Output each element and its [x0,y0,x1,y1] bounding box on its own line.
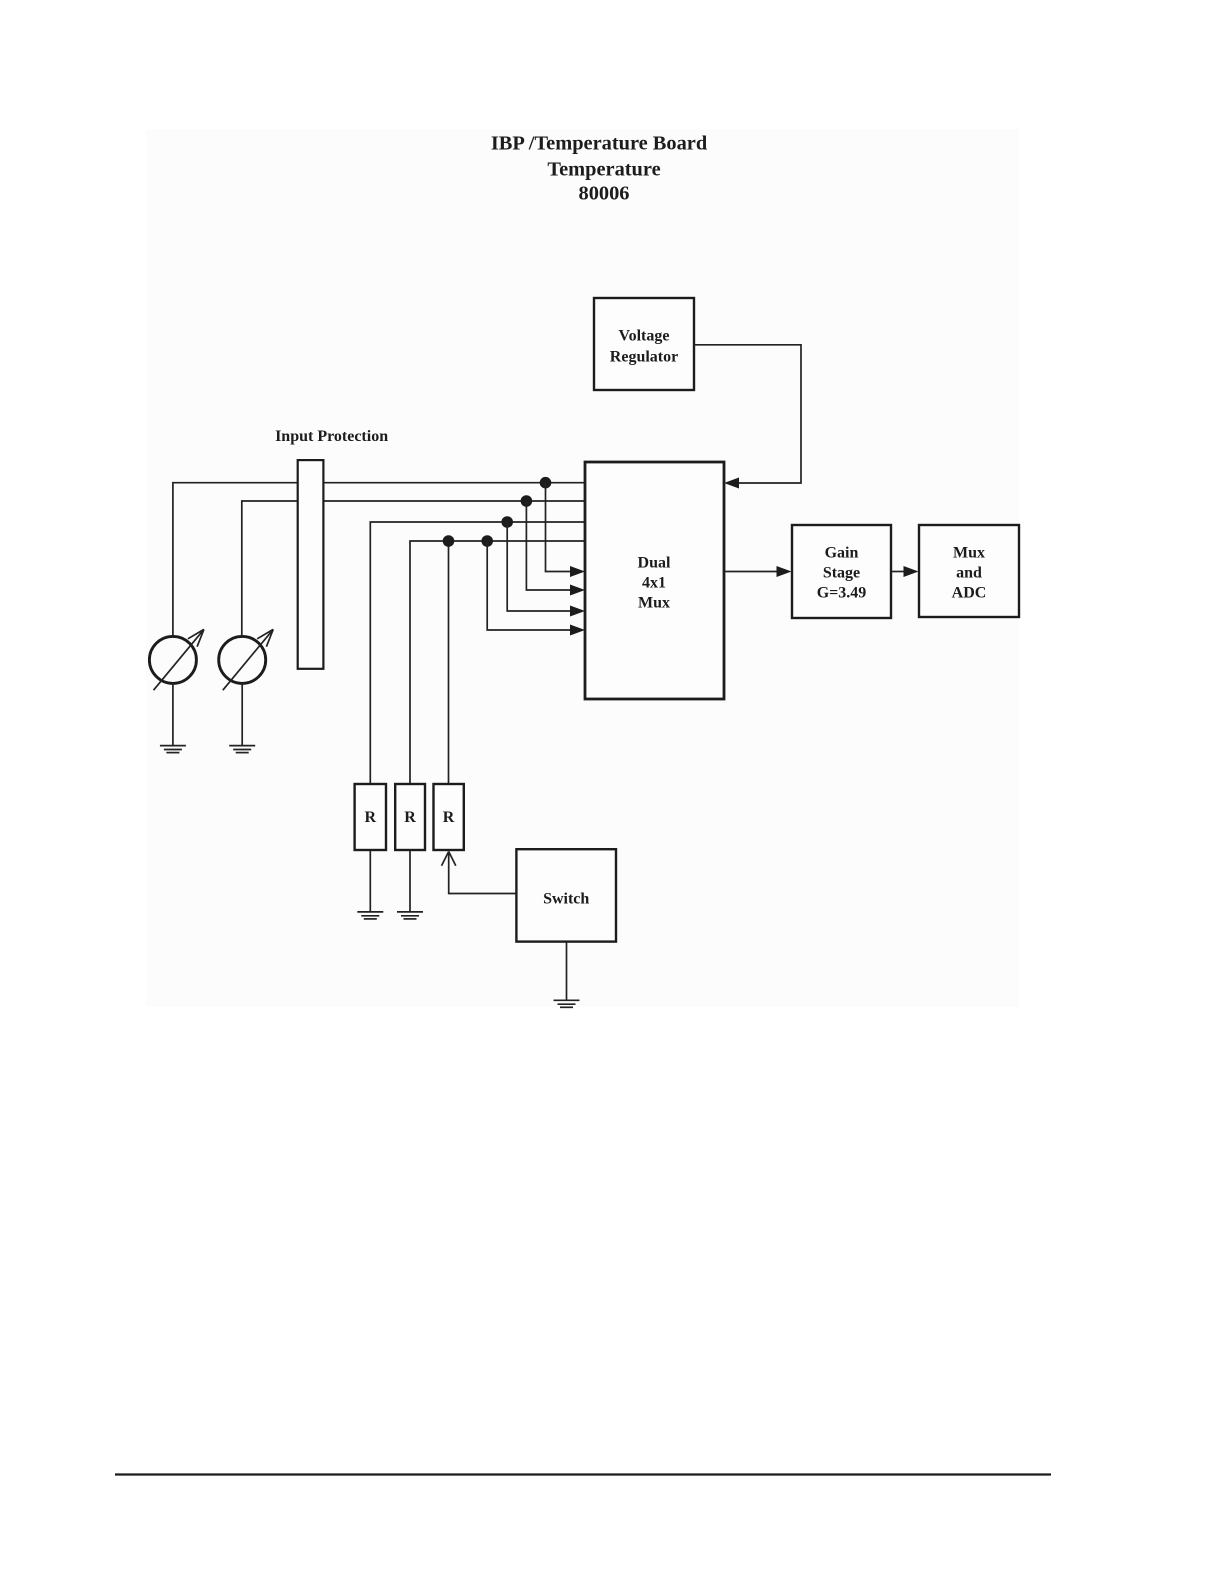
sensor transducer 1 [149,636,196,683]
svg-text:Mux: Mux [638,595,670,612]
svg-text:Mux: Mux [953,545,985,562]
resistor R2 [395,784,425,850]
wire gain stage to mux and adc [891,571,906,573]
ground sensor1 [160,746,186,753]
wire drop net3 to mux input 3 [507,522,573,611]
wire switch to R3 with open arrow [442,852,517,894]
svg-text:Input Protection: Input Protection [275,428,388,445]
wire net4 from R2 to mux [410,541,585,784]
junction dot on net1 [540,477,552,489]
sensor transducer 2 [219,636,266,683]
wire net2 from sensor2 to mux [242,501,585,636]
wire mux output to gain stage [724,571,779,573]
wire net1 from sensor1 to mux [173,483,585,636]
input protection block [298,460,324,669]
junction dot on net4 branch to mux [481,535,493,547]
svg-text:Regulator: Regulator [610,349,678,366]
junction dot on net3 [501,516,513,528]
mux and adc box [919,525,1019,617]
svg-text:4x1: 4x1 [642,575,666,592]
wire sensor2 to ground [241,683,243,746]
wire R2 to ground [409,850,411,912]
mux box U2 [585,462,724,699]
junction dot on net4 branch to R3 [443,535,455,547]
svg-text:Stage: Stage [823,565,860,582]
svg-text:R: R [443,809,455,826]
wire drop net1 to mux input 1 [546,483,574,572]
svg-text:G=3.49: G=3.49 [817,585,867,602]
wire drop net4 to mux input 4 [487,541,573,630]
svg-text:and: and [956,565,982,582]
footer rule [115,1473,1051,1475]
switch box [516,849,616,941]
svg-text:Switch: Switch [543,891,589,908]
svg-text:IBP /Temperature Board: IBP /Temperature Board [491,133,708,155]
svg-text:Voltage: Voltage [619,328,670,345]
wire sensor1 to ground [172,683,174,746]
svg-text:R: R [365,809,377,826]
ground switch [554,1000,580,1007]
wire net4 branch to R3 [448,541,450,784]
title [491,133,708,205]
ground R1 [357,912,383,919]
ground R2 [397,912,423,919]
gain stage box [792,525,891,618]
resistor R3 [434,784,464,850]
svg-text:ADC: ADC [952,585,987,602]
resistor R1 [355,784,386,850]
svg-text:Temperature: Temperature [547,159,660,181]
wire switch to ground [566,942,568,1001]
junction dot on net2 [521,495,533,507]
ground sensor2 [229,746,255,753]
wire net3 from R1 to mux [370,522,585,784]
voltage regulator box [594,298,694,390]
wire drop net2 to mux input 2 [526,501,573,590]
svg-text:Dual: Dual [638,555,671,572]
svg-text:Gain: Gain [825,545,859,562]
svg-text:R: R [404,809,416,826]
wire R1 to ground [369,850,371,912]
svg-text:80006: 80006 [579,183,630,205]
wire from voltage regulator to mux [694,345,801,483]
